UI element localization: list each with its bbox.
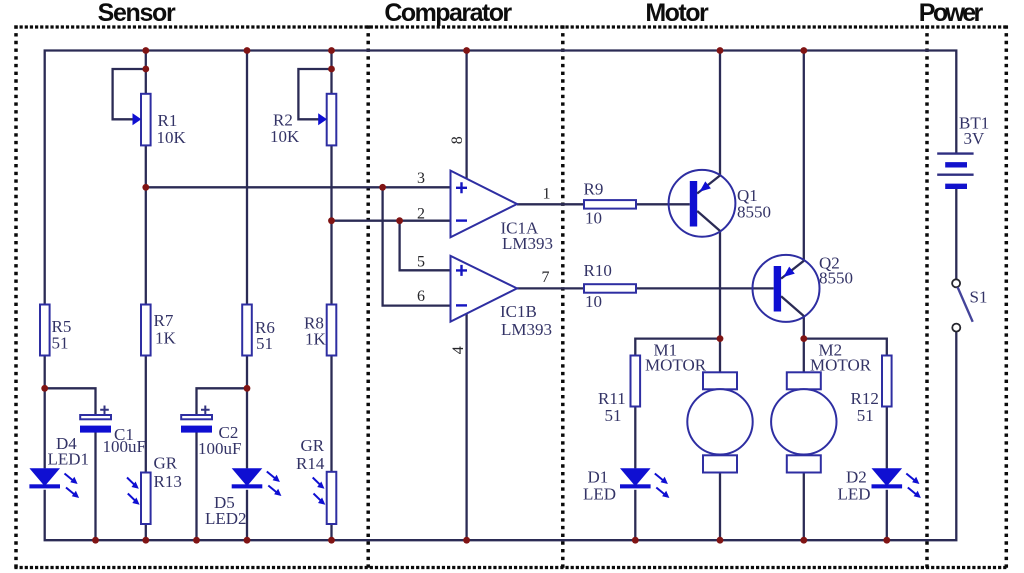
junction ground M2 (800, 537, 807, 544)
battery BT1 (937, 154, 973, 187)
op-amp IC1B (451, 256, 518, 322)
wire M1 branch to R11 (635, 339, 720, 356)
wire R2 wiper loop (298, 69, 331, 119)
resistor R9 (584, 200, 636, 209)
LED D5 (232, 468, 282, 496)
LED D1 (620, 468, 669, 498)
wire R1 bottom to R7 (145, 145, 147, 305)
svg-text:51: 51 (52, 334, 69, 353)
wire R1 wiper loop (113, 69, 146, 119)
photoresistor R13 (127, 473, 151, 525)
svg-text:10K: 10K (157, 128, 187, 147)
svg-text:8550: 8550 (737, 203, 771, 222)
svg-text:3V: 3V (964, 129, 986, 148)
capacitor C2 (181, 406, 212, 433)
transistor Q2 (753, 255, 820, 322)
resistor R11 (631, 356, 641, 407)
wire R7 to R13 (145, 356, 147, 473)
wire R6 to D5 (246, 356, 248, 469)
wire pin5 branch (400, 221, 451, 271)
junction ground D1 (632, 537, 639, 544)
op-amp IC1A (451, 171, 518, 238)
wire R5 to D4 (44, 356, 46, 469)
capacitor C1 (80, 406, 111, 433)
svg-text:51: 51 (605, 406, 622, 425)
resistor R6 (242, 305, 252, 356)
wire pin3 net (146, 186, 451, 188)
motor M1 (687, 372, 752, 472)
svg-text:LED2: LED2 (205, 509, 247, 528)
junction Q2 collector node (800, 335, 807, 342)
wire C1 to ground rail (94, 432, 96, 541)
junction C1 node (41, 385, 48, 392)
wire Q2 emitter to rail (803, 51, 805, 261)
svg-text:5: 5 (417, 254, 425, 271)
junction top rail pin8 (463, 47, 470, 54)
switch S1 (952, 279, 973, 331)
wire R1 column (145, 51, 147, 95)
svg-text:R13: R13 (154, 472, 182, 491)
junction R2 wiper node (328, 217, 335, 224)
svg-text:10: 10 (585, 292, 602, 311)
potentiometer R1 (133, 94, 151, 146)
wire pin6 branch (383, 187, 451, 305)
wire R13 to ground rail (145, 524, 147, 540)
wire pin4 ground (465, 313, 467, 540)
resistor R8 (327, 305, 337, 356)
svg-text:MOTOR: MOTOR (645, 356, 707, 375)
svg-text:R9: R9 (584, 180, 604, 199)
junction ground D5 (244, 537, 251, 544)
wire battery to switch (955, 188, 957, 280)
wire R12 to D2 (886, 406, 888, 468)
junction top rail Q2 (800, 47, 807, 54)
resistor R10 (584, 284, 636, 293)
junction R1 loop (142, 66, 149, 73)
wire R6 column (246, 51, 248, 305)
wire GND bottom rail (45, 332, 957, 541)
junction top rail R1 (142, 47, 149, 54)
resistor R5 (40, 305, 50, 356)
svg-text:S1: S1 (970, 288, 988, 307)
wire C2 to ground rail (195, 432, 197, 541)
junction ground R13 (142, 537, 149, 544)
svg-text:IC1B: IC1B (500, 302, 537, 321)
junction ground pin4 (463, 537, 470, 544)
svg-text:1K: 1K (305, 330, 327, 349)
svg-text:GR: GR (301, 436, 325, 455)
junction ground D2 (883, 537, 890, 544)
svg-text:10: 10 (585, 208, 602, 227)
wire D2 to ground rail (886, 490, 888, 540)
svg-text:100uF: 100uF (103, 437, 146, 456)
junction ground C2 (193, 537, 200, 544)
potentiometer R2 (318, 94, 336, 146)
LED D2 (872, 468, 921, 498)
svg-text:LED: LED (838, 485, 871, 504)
junction R2 loop (328, 66, 335, 73)
junction ground R14 (328, 537, 335, 544)
junction ground C1 (92, 537, 99, 544)
wire M2 branch to R12 (804, 339, 887, 356)
svg-text:LM393: LM393 (501, 320, 552, 339)
wire C2 branch (197, 388, 248, 415)
wire Q2 collector down (803, 316, 805, 372)
section border bottom (14, 566, 1008, 569)
svg-text:8550: 8550 (819, 269, 853, 288)
section border top (14, 25, 1008, 28)
wire R2 column (330, 51, 332, 95)
svg-text:3: 3 (417, 170, 425, 187)
svg-text:Power: Power (919, 0, 984, 27)
motor M2 (771, 372, 836, 472)
svg-text:4: 4 (450, 346, 467, 354)
svg-text:8: 8 (449, 136, 466, 144)
svg-text:LED: LED (583, 485, 616, 504)
junction top rail R2 (328, 47, 335, 54)
wire VCC top rail (45, 51, 957, 305)
photoresistor R14 (313, 472, 337, 524)
section border Sensor/Comparator (366, 25, 370, 569)
wire C1 branch (45, 388, 96, 415)
LED D4 (29, 468, 79, 498)
wire D5 to ground rail (246, 490, 248, 540)
svg-text:R10: R10 (584, 261, 612, 280)
wire IC1A output to R9 (517, 203, 584, 205)
svg-text:51: 51 (256, 334, 273, 353)
section border Comparator/Motor (561, 25, 565, 569)
junction top rail Q1 (717, 47, 724, 54)
junction Q1 collector node (717, 335, 724, 342)
svg-text:1: 1 (543, 186, 551, 203)
junction C2 node (244, 385, 251, 392)
svg-text:R7: R7 (154, 311, 174, 330)
section border Motor/Power (925, 25, 929, 569)
junction pin3 branch (379, 184, 386, 191)
wire R10 to Q2 base (636, 287, 774, 289)
wire R11 to D1 (634, 406, 636, 468)
svg-text:GR: GR (154, 454, 178, 473)
transistor Q1 (669, 170, 736, 237)
junction R1 wiper node (142, 184, 149, 191)
svg-text:Comparator: Comparator (384, 0, 512, 27)
wire M1 motor to ground rail (719, 473, 721, 541)
svg-text:MOTOR: MOTOR (810, 356, 872, 375)
svg-text:10K: 10K (270, 127, 300, 146)
svg-text:51: 51 (857, 406, 874, 425)
svg-text:1K: 1K (155, 329, 177, 348)
svg-text:LM393: LM393 (502, 234, 553, 253)
resistor R7 (141, 305, 151, 356)
wire Q1 emitter to rail (719, 51, 721, 176)
resistor R12 (882, 356, 892, 407)
wire pin2 net (332, 220, 451, 222)
svg-text:R14: R14 (296, 454, 325, 473)
junction top rail R6 (244, 47, 251, 54)
svg-text:Motor: Motor (645, 0, 709, 27)
wire R8 to R14 (330, 356, 332, 472)
junction ground M1 (717, 537, 724, 544)
wire R2 bottom to R8 (330, 145, 332, 305)
junction pin2 branch (396, 217, 403, 224)
svg-text:2: 2 (417, 206, 425, 223)
wire D1 to ground rail (634, 490, 636, 540)
section border right (1005, 25, 1009, 569)
svg-text:Sensor: Sensor (98, 0, 176, 27)
svg-text:LED1: LED1 (48, 450, 90, 469)
wire IC1B output to R10 (517, 287, 584, 289)
svg-text:100uF: 100uF (198, 439, 241, 458)
section border left (14, 25, 18, 569)
wire M2 motor to ground rail (803, 473, 805, 541)
wire pin8 supply (465, 51, 467, 179)
wire R9 to Q1 base (636, 203, 690, 205)
svg-text:6: 6 (417, 288, 425, 305)
wire R14 to ground rail (330, 524, 332, 540)
svg-text:7: 7 (542, 269, 550, 286)
wire Q1 collector down (719, 231, 721, 372)
